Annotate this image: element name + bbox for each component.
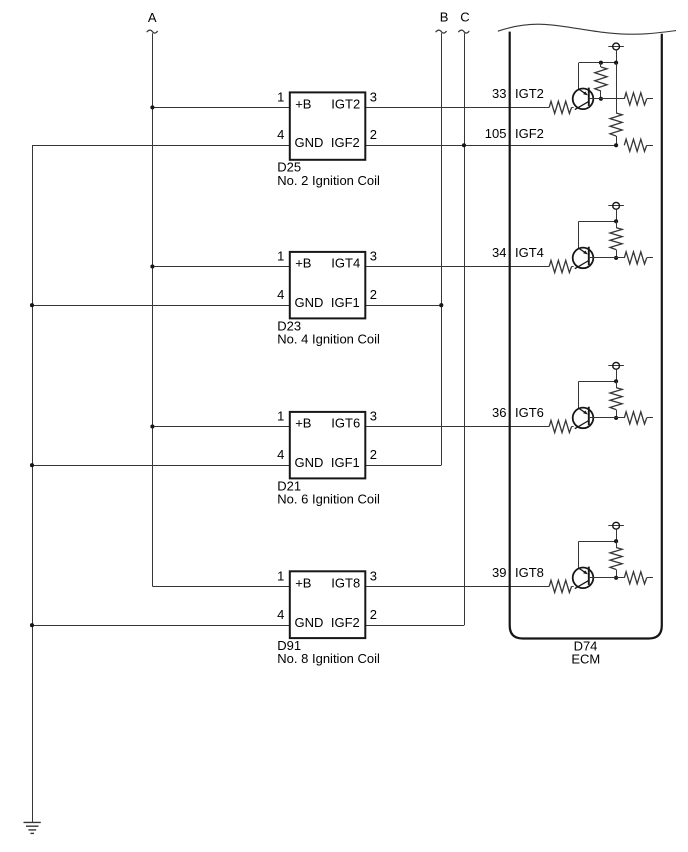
wire B break mark [436,30,447,33]
svg-text:36: 36 [492,405,506,420]
transistor Q4 channel IGT8 [573,567,594,589]
power symbol channel IGT2 [608,43,624,50]
svg-text:+B: +B [295,96,311,111]
wire pull-up upper lead channel IGT6 [616,381,618,387]
wire top rail channel IGT4 [579,221,616,223]
wire B vertical [441,33,443,465]
wire IGF1 from coil D23 to wire B [365,305,441,307]
svg-text:IGF2: IGF2 [331,615,360,630]
resistor pull-up channel IGT8 [610,548,622,570]
svg-text:ECM: ECM [571,652,600,667]
wire power drop channel IGT4 [616,209,618,221]
wire base resistor tail channel IGT6 [647,417,653,419]
resistor on IGT6 line inside ECM [549,420,571,432]
svg-text:3: 3 [370,248,377,263]
power symbol channel IGT4 [608,202,624,209]
junction on ground bus at coil D21 [30,463,34,467]
svg-text:3: 3 [370,408,377,423]
svg-text:IGF2: IGF2 [515,126,544,141]
wire pull-up upper lead channel IGT8 [616,541,618,547]
wire GND return from coil D21 [32,465,290,467]
svg-text:3: 3 [370,89,377,104]
wire base resistor tail channel IGT2 [647,98,653,100]
transistor Q2 channel IGT4 [573,247,594,269]
svg-text:IGT6: IGT6 [515,405,544,420]
junction base node channel IGT8 [614,576,618,580]
wire IGT8 resistor to transistor [572,586,574,588]
wire collector branch channel IGT2 [578,63,580,90]
resistor pull-up channel IGT4 [610,228,622,250]
svg-text:No. 2 Ignition Coil: No. 2 Ignition Coil [277,173,380,188]
svg-text:1: 1 [277,568,284,583]
svg-text:2: 2 [370,127,377,142]
wire top rail channel IGT2 [579,62,616,64]
wire C break mark [458,30,469,33]
svg-text:IGT6: IGT6 [331,416,360,431]
wire GND return from coil D91 [32,625,290,627]
svg-text:B: B [440,9,449,24]
junction on ground bus at coil D23 [30,303,34,307]
svg-text:4: 4 [277,287,284,302]
ignition coil D91 box [290,571,366,638]
wire IGT6 from coil D21 to ECM [365,426,549,428]
wire base line channel IGT6 [589,417,625,419]
ECM D74 box left/bottom/right border [510,32,662,639]
wire top rail channel IGT8 [579,541,616,543]
svg-text:1: 1 [277,248,284,263]
junction on ground bus at coil D91 [30,623,34,627]
svg-text:No. 4 Ignition Coil: No. 4 Ignition Coil [277,331,380,346]
wire power drop channel IGT2 [616,50,618,63]
svg-text:No. 8 Ignition Coil: No. 8 Ignition Coil [277,651,380,666]
ignition coil D25 box [290,92,366,159]
junction top rail channel IGT2 [614,61,618,65]
wire IGT4 resistor to transistor [572,266,574,268]
junction base node channel IGT4 [614,256,618,260]
resistor on IGT8 line inside ECM [549,580,571,592]
svg-text:IGT4: IGT4 [515,245,544,260]
junction top rail channel IGT8 [614,539,618,543]
svg-text:4: 4 [277,127,284,142]
wire pull-up upper lead channel IGT4 [616,221,618,227]
svg-text:2: 2 [370,607,377,622]
wire collector branch channel IGT6 [578,381,580,408]
junction base node channel IGT2 [599,97,603,101]
svg-text:33: 33 [492,86,506,101]
svg-text:2: 2 [370,447,377,462]
junction wire C on IGF2 line [462,143,466,147]
svg-text:1: 1 [277,408,284,423]
svg-text:34: 34 [492,245,506,260]
junction on wire A at coil D21 [150,424,154,428]
wire base resistor tail channel IGT8 [647,577,653,579]
wire IGF2 sense drop [616,63,618,113]
resistor base channel IGT6 [624,412,646,424]
wire IGT6 resistor to transistor [572,426,574,428]
ECM D74 box wavy top edge [498,24,676,34]
junction on wire A at coil D23 [150,264,154,268]
power symbol channel IGT6 [608,362,624,369]
svg-text:IGF1: IGF1 [331,455,360,470]
wire IGT8 from coil D91 to ECM [365,586,549,588]
resistor IGF2 sense [610,113,622,136]
junction top rail channel IGT6 [614,379,618,383]
resistor base channel IGT4 [624,252,646,264]
wire +B feed to coil D91 [152,586,289,588]
wire +B feed to coil D21 [152,426,289,428]
wire IGT2 resistor to transistor [572,107,574,109]
power symbol channel IGT8 [608,522,624,529]
wire IGF2 from coil D25 to ECM pin 105 [365,145,616,147]
wire base line channel IGT2 [589,98,625,100]
wire power drop channel IGT6 [616,369,618,381]
svg-text:GND: GND [295,455,324,470]
svg-text:IGF2: IGF2 [331,135,360,150]
svg-text:IGT8: IGT8 [515,565,544,580]
resistor pull-up channel IGT6 [610,388,622,410]
resistor on IGF2 line [624,139,646,151]
ground [24,822,41,833]
resistor on IGT2 line inside ECM [549,101,571,113]
svg-text:GND: GND [295,295,324,310]
svg-text:GND: GND [295,135,324,150]
svg-text:39: 39 [492,565,506,580]
svg-text:IGT4: IGT4 [331,256,360,271]
wire +B feed to coil D25 [152,107,289,109]
wire pull-up lower lead channel IGT6 [616,410,618,418]
wire A break mark [147,30,158,33]
wire GND return from coil D23 [32,305,290,307]
wire IGF2 sense lower lead [616,136,618,145]
svg-text:+B: +B [295,575,311,590]
wire +B feed to coil D23 [152,266,289,268]
svg-text:IGT2: IGT2 [515,86,544,101]
svg-text:4: 4 [277,607,284,622]
svg-text:IGF1: IGF1 [331,295,360,310]
svg-text:No. 6 Ignition Coil: No. 6 Ignition Coil [277,491,380,506]
svg-text:1: 1 [277,89,284,104]
svg-text:+B: +B [295,416,311,431]
junction top rail channel IGT4 [614,219,618,223]
wire pull-up upper lead channel IGT2 [600,63,602,67]
svg-text:IGT2: IGT2 [331,96,360,111]
resistor on IGT4 line inside ECM [549,260,571,272]
wire IGF2 from coil D91 to wire C [365,625,464,627]
junction base node channel IGT6 [614,416,618,420]
wire base resistor tail channel IGT4 [647,257,653,259]
wire GND return from coil D25 [32,145,290,147]
wire IGT2 from coil D25 to ECM [365,107,549,109]
wire A vertical [152,33,154,586]
svg-text:3: 3 [370,568,377,583]
junction IGF2 line [614,143,618,147]
wire ground bus vertical [32,145,34,822]
wire pull-up lower lead channel IGT2 [600,91,602,99]
svg-text:IGT8: IGT8 [331,575,360,590]
ignition coil D21 box [290,412,366,479]
svg-text:105: 105 [485,126,507,141]
wire IGF1 from coil D21 to wire B [365,465,441,467]
wire base line channel IGT8 [589,577,625,579]
wire base line channel IGT4 [589,257,625,259]
junction on wire A at coil D25 [150,105,154,109]
svg-text:C: C [460,9,469,24]
wire collector branch channel IGT4 [578,221,580,248]
wire pull-up lower lead channel IGT8 [616,570,618,578]
wire pull-up lower lead channel IGT4 [616,250,618,258]
wire top rail channel IGT6 [579,381,616,383]
ignition coil D23 box [290,252,366,319]
svg-text:+B: +B [295,256,311,271]
wire C vertical [464,33,466,625]
transistor Q1 channel IGT2 [573,88,594,110]
wire IGT4 from coil D23 to ECM [365,266,549,268]
svg-text:A: A [148,10,157,25]
resistor base channel IGT8 [624,572,646,584]
junction top rail pull-up channel IGT2 [599,61,603,65]
resistor pull-up channel IGT2 [595,67,607,91]
wire power drop channel IGT8 [616,529,618,541]
resistor base channel IGT2 [624,93,646,105]
wire collector branch channel IGT8 [578,541,580,568]
svg-text:4: 4 [277,447,284,462]
svg-text:2: 2 [370,287,377,302]
svg-text:GND: GND [295,615,324,630]
transistor Q3 channel IGT6 [573,407,594,429]
wire IGF2 resistor tail [647,145,653,147]
junction wire B on coil D23 IGF1 line [439,303,443,307]
